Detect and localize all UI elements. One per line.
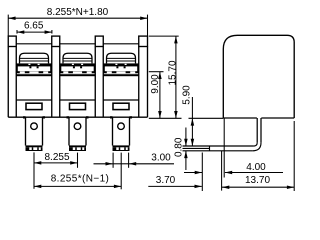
dimension 8.255*(N-1) [120,153,122,190]
dimension 8.255 pitch [33,152,35,188]
terminal unit 1 foot step right [43,116,46,118]
pin top edge / 0.80 extension [183,145,254,147]
dimension 8.255*N+1.80 overall width [7,15,9,36]
terminal unit 3 clamp seat bar [103,74,139,76]
solder tab 1 [25,117,27,145]
svg-text:4.00: 4.00 [246,162,266,173]
terminal unit 2 screw head [63,53,92,63]
solder tab 3 serrated tip [113,147,117,150]
solder tab 3 [112,117,114,145]
side view housing body [223,35,294,118]
pin bottom edge / 0.80 extension [183,150,253,152]
dimension 5.90 [189,117,224,119]
front face top edge segment 2 [60,43,96,45]
terminal unit 2 foot step right [86,116,89,118]
terminal unit 3 lower section edge [103,99,139,101]
front view barrier wall 2 [52,36,60,46]
svg-text:6.65: 6.65 [24,20,44,31]
terminal unit 3 foot step left [110,116,113,118]
svg-text:13.70: 13.70 [245,175,270,186]
svg-text:3.70: 3.70 [156,175,176,186]
solder tab 2 serrated tip [69,147,73,150]
terminal unit 1 wire entry window [26,103,42,109]
terminal unit 1 wire clamp [16,63,52,73]
solder tab 1 serrated tip [26,147,30,150]
side view bottom edge left of pin [223,117,257,119]
side view bent solder pin [256,118,258,143]
dimension 15.70 overall height [149,35,179,37]
solder tab 2 [68,117,70,145]
terminal unit 3 foot step right [130,116,133,118]
front face top edge segment 3 [103,43,139,45]
front view barrier wall 3 [95,36,103,46]
terminal unit 1 screw head [20,53,49,63]
front view bottom edge [8,116,147,118]
svg-text:3.00: 3.00 [151,152,171,163]
front face top edge segment 1 [16,43,52,45]
dimension 3.70 leader [148,185,202,187]
extension lines bottom right [201,153,203,192]
svg-text:8.255*N+1.80: 8.255*N+1.80 [47,7,109,18]
terminal unit 2 foot step left [67,116,70,118]
dimension 4.00 row [184,172,202,174]
terminal unit 2 lower section edge [60,99,96,101]
dimension 0.80 pin thickness arrows [185,128,187,147]
terminal unit 2 wire entry window [70,103,86,109]
svg-text:9.00: 9.00 [150,74,161,94]
svg-text:0.80: 0.80 [173,137,184,157]
pin tip serration line [183,147,210,149]
terminal unit 3 wire entry window [113,103,129,109]
terminal unit 1 clamp seat bar [16,74,52,76]
terminal unit 1 foot step left [23,116,26,118]
svg-text:8.255*(N−1): 8.255*(N−1) [51,173,110,184]
front view barrier wall 4 [139,36,148,46]
terminal unit 1 lower section edge [16,99,52,101]
dimension 9.00 [149,71,164,73]
dimension 6.65 opening width [16,30,18,34]
terminal unit 3 wire clamp [103,63,139,73]
dimension 3.00 tab width arrows [112,153,114,168]
dimension 13.70 [222,186,294,188]
front view barrier wall 1 [8,36,16,46]
svg-text:8.255: 8.255 [44,152,69,163]
terminal unit 2 wire clamp [60,63,96,73]
terminal unit 3 screw head [107,53,136,63]
terminal unit 2 clamp seat bar [60,74,96,76]
svg-text:15.70: 15.70 [168,60,179,85]
svg-text:5.90: 5.90 [181,85,192,105]
pin serrated tip end cap [209,146,211,151]
side view bottom edge right of pin [261,117,294,119]
